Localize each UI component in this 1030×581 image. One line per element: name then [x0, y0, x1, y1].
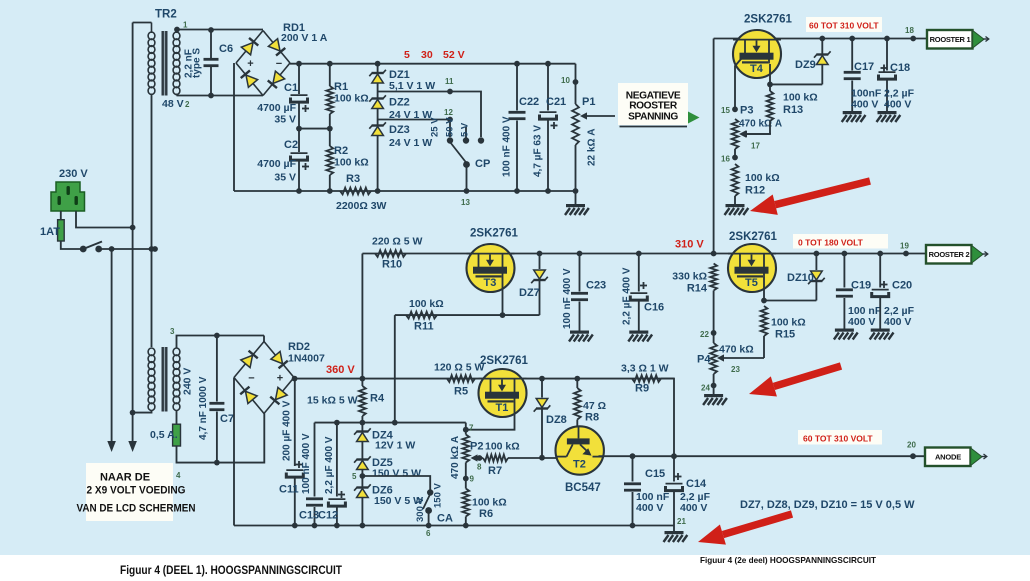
svg-text:1AT: 1AT [40, 226, 60, 238]
svg-text:2SK2761: 2SK2761 [729, 231, 778, 243]
svg-text:R9: R9 [635, 383, 649, 395]
svg-text:2: 2 [185, 100, 190, 109]
zener DZ1 [369, 64, 435, 92]
svg-text:400 V: 400 V [851, 99, 878, 111]
svg-text:ROOSTER 2: ROOSTER 2 [929, 250, 970, 259]
svg-text:C6: C6 [219, 43, 233, 55]
label negatieve rooster spanning [618, 83, 700, 127]
svg-text:C13: C13 [299, 510, 319, 522]
svg-text:R8: R8 [585, 412, 599, 424]
svg-text:7: 7 [469, 424, 474, 433]
svg-text:2,2 µF 400 V: 2,2 µF 400 V [324, 436, 335, 494]
pin 1 [183, 21, 188, 30]
label 60 tot 310 volt (rooster1) [806, 17, 882, 32]
svg-text:−: − [248, 373, 254, 385]
node 11 wire [378, 77, 485, 144]
wire rooster1 rail [714, 36, 927, 42]
potentiometer P3 [732, 105, 782, 158]
wire pin3 rail [177, 336, 265, 349]
svg-text:R15: R15 [775, 329, 795, 341]
svg-text:16: 16 [721, 155, 730, 164]
svg-text:470 kΩ A: 470 kΩ A [450, 436, 461, 479]
svg-text:12V 1 W: 12V 1 W [375, 440, 415, 452]
svg-text:24 V 1 W: 24 V 1 W [389, 137, 432, 149]
fuse 0,5A [150, 411, 181, 447]
svg-text:C16: C16 [644, 302, 664, 314]
transformer TR3 [148, 347, 180, 412]
resistor R2 [326, 129, 368, 191]
wire neutral vertical [128, 23, 137, 453]
zener DZ10 [787, 254, 825, 301]
resistor R3 [336, 173, 387, 212]
label RD1 [281, 22, 328, 44]
svg-text:220 Ω 5 W: 220 Ω 5 W [372, 236, 423, 248]
wire T3 gate [502, 277, 504, 315]
output ANODE [925, 448, 987, 467]
svg-text:8: 8 [477, 463, 482, 472]
svg-text:R1: R1 [334, 81, 348, 93]
zener DZ3 [369, 120, 432, 192]
svg-text:5: 5 [352, 472, 357, 481]
output ROOSTER 2 [926, 245, 988, 264]
svg-text:100 nF 400 V: 100 nF 400 V [502, 116, 513, 177]
capacitor C20 [872, 254, 915, 329]
node top rail DC [290, 61, 576, 67]
pin 19 [900, 242, 909, 251]
svg-text:R11: R11 [414, 321, 434, 333]
wire TR2 primary bottom to TR3 primary top [149, 96, 155, 348]
svg-text:50 V: 50 V [445, 117, 456, 137]
wire T4 gate [769, 64, 771, 91]
resistor R5 [434, 362, 485, 398]
wire plug-right to neutral line [76, 211, 136, 230]
svg-text:T2: T2 [573, 459, 586, 471]
svg-text:R13: R13 [783, 104, 803, 116]
ground C16 [628, 331, 652, 342]
wire anode rail [599, 453, 928, 459]
potentiometer P4 [697, 291, 754, 375]
svg-text:SPANNING: SPANNING [628, 112, 678, 123]
svg-text:48 V: 48 V [162, 98, 184, 110]
svg-text:2,2 µF 400 V: 2,2 µF 400 V [622, 267, 633, 325]
svg-text:2SK2761: 2SK2761 [744, 14, 793, 26]
capacitor C12 [318, 423, 345, 526]
svg-text:47 Ω: 47 Ω [583, 400, 606, 412]
transistor T5 [728, 231, 778, 292]
svg-text:R12: R12 [745, 185, 765, 197]
zener DZ9 [767, 39, 831, 88]
svg-text:470 kΩ A: 470 kΩ A [739, 119, 782, 130]
svg-text:R4: R4 [370, 393, 385, 405]
resistor R7 [483, 441, 557, 478]
wire RD1 minus vertical [233, 63, 235, 191]
svg-text:100 kΩ: 100 kΩ [409, 298, 444, 310]
capacitor C15 [624, 456, 670, 525]
svg-text:60 TOT 310 VOLT: 60 TOT 310 VOLT [803, 434, 873, 444]
capacitor C2 [257, 129, 309, 191]
svg-text:5 V: 5 V [460, 122, 471, 137]
svg-text:1: 1 [183, 21, 188, 30]
node 15 [721, 106, 738, 115]
svg-text:C23: C23 [586, 280, 606, 292]
potentiometer P1 [561, 64, 615, 204]
svg-text:+: + [277, 373, 283, 385]
svg-text:25 V: 25 V [430, 117, 441, 137]
svg-text:4,7 nF 1000 V: 4,7 nF 1000 V [198, 376, 209, 440]
zener DZ6 [354, 484, 423, 525]
svg-text:C17: C17 [854, 61, 874, 73]
red arrow 1 [750, 181, 870, 215]
svg-text:DZ8: DZ8 [546, 414, 567, 426]
svg-text:VAN DE LCD SCHERMEN: VAN DE LCD SCHERMEN [77, 503, 196, 515]
svg-text:2 X9 VOLT VOEDING: 2 X9 VOLT VOEDING [87, 485, 186, 497]
node 5 [352, 472, 365, 481]
svg-text:DZ10: DZ10 [787, 272, 814, 284]
svg-text:R2: R2 [334, 145, 348, 157]
label 310 V [675, 239, 704, 251]
svg-text:0 TOT 180 VOLT: 0 TOT 180 VOLT [798, 238, 864, 248]
svg-text:60 TOT 310 VOLT: 60 TOT 310 VOLT [809, 21, 879, 31]
svg-text:310 V: 310 V [675, 239, 704, 251]
label 5 30 52 V [404, 49, 465, 61]
red arrow 3 [698, 514, 792, 545]
resistor R14 [672, 264, 717, 295]
svg-text:CP: CP [475, 158, 490, 170]
svg-text:100 nF 400 V: 100 nF 400 V [301, 433, 312, 494]
svg-text:C19: C19 [851, 280, 871, 292]
svg-text:24: 24 [701, 384, 710, 393]
node 24 [701, 374, 716, 394]
svg-text:330 kΩ: 330 kΩ [672, 271, 707, 283]
svg-text:2SK2761: 2SK2761 [470, 228, 519, 240]
svg-text:470 kΩ: 470 kΩ [719, 344, 754, 356]
wire plug-left to fuse [60, 211, 62, 220]
svg-text:C15: C15 [645, 468, 665, 480]
svg-text:35 V: 35 V [274, 114, 296, 126]
capacitor C11 [279, 379, 303, 526]
resistor R1 [326, 64, 368, 129]
svg-text:4: 4 [176, 471, 181, 480]
svg-text:ROOSTER 1: ROOSTER 1 [930, 35, 971, 44]
svg-text:5: 5 [404, 49, 410, 61]
wire 360V rail [292, 376, 674, 382]
capacitor C14 [666, 456, 711, 531]
wire pin1 rail [174, 27, 263, 33]
pin 18 [905, 26, 914, 35]
wire TR2 primary top jog [133, 22, 152, 24]
svg-text:400 V: 400 V [884, 316, 911, 328]
svg-text:22 kΩ A: 22 kΩ A [587, 129, 598, 166]
capacitor C18 [879, 39, 915, 112]
svg-text:T1: T1 [496, 402, 509, 414]
resistor R8 [574, 379, 606, 439]
label 48 V [162, 98, 190, 110]
pin 3 [170, 327, 175, 336]
svg-text:100 nF 400 V: 100 nF 400 V [562, 268, 573, 329]
bridge rectifier RD1 [236, 31, 290, 96]
ground C17 [842, 111, 866, 122]
capacitor C17 [844, 39, 882, 112]
svg-text:15: 15 [721, 106, 730, 115]
label 230 V [59, 168, 88, 180]
svg-text:DZ7, DZ8, DZ9, DZ10 = 15 V 0,5: DZ7, DZ8, DZ9, DZ10 = 15 V 0,5 W [740, 499, 915, 511]
capacitor C1 [257, 64, 309, 129]
node 12 wire [378, 108, 454, 144]
label 360 V [326, 364, 355, 376]
ground P1 [565, 204, 589, 215]
svg-text:C2: C2 [284, 139, 298, 151]
ground C18 [877, 111, 901, 122]
svg-text:P4: P4 [697, 354, 711, 366]
svg-text:200 µF 400 V: 200 µF 400 V [282, 400, 293, 461]
wire TR3 primary bottom jog [133, 410, 152, 413]
switch CP [450, 142, 490, 207]
svg-text:Figuur 4 (DEEL 1). HOOGSPANNI: Figuur 4 (DEEL 1). HOOGSPANNINGSCIRCUIT [120, 565, 342, 577]
svg-text:100 kΩ: 100 kΩ [334, 157, 369, 169]
transistor T4 [733, 14, 793, 79]
svg-text:DZ3: DZ3 [389, 124, 410, 136]
svg-text:NAAR DE: NAAR DE [100, 472, 150, 484]
svg-text:100 kΩ: 100 kΩ [334, 93, 369, 105]
ground C23 [569, 331, 593, 342]
ground C20 [870, 329, 894, 340]
capacitor C7 [198, 333, 234, 463]
svg-text:BC547: BC547 [565, 482, 601, 494]
svg-text:C1: C1 [284, 82, 298, 94]
wire P4 wiper [717, 354, 764, 374]
svg-text:3: 3 [170, 327, 175, 336]
node 16 [721, 155, 738, 164]
wire pin2 rail [177, 95, 264, 97]
svg-text:4,7 µF 63 V: 4,7 µF 63 V [533, 125, 544, 177]
svg-text:T4: T4 [750, 63, 764, 75]
svg-text:+: + [247, 58, 253, 70]
wire T5 gate [761, 277, 816, 303]
svg-text:15 kΩ 5 W: 15 kΩ 5 W [307, 395, 358, 407]
svg-text:T5: T5 [745, 277, 758, 289]
zener DZ5 [354, 456, 421, 486]
svg-text:22: 22 [700, 330, 709, 339]
wire RD2 top stub [263, 336, 265, 342]
wire dz net [315, 420, 466, 426]
mains switch [80, 242, 102, 253]
transistor T3 [467, 228, 519, 293]
caption deel2 [700, 555, 877, 565]
svg-text:11: 11 [445, 77, 454, 86]
svg-text:2SK2761: 2SK2761 [480, 355, 529, 367]
zener DZ4 [354, 428, 415, 458]
capacitor C21 [533, 64, 567, 191]
svg-text:P3: P3 [740, 105, 753, 117]
red arrow 2 [749, 366, 841, 396]
svg-text:T3: T3 [484, 277, 497, 289]
ground C19 [834, 329, 858, 340]
resistor R9 [621, 363, 674, 457]
svg-text:DZ2: DZ2 [389, 97, 410, 109]
svg-text:3,3 Ω 1 W: 3,3 Ω 1 W [621, 363, 669, 375]
svg-text:150 V 5 W: 150 V 5 W [372, 468, 421, 480]
svg-text:400 V: 400 V [680, 502, 707, 514]
svg-text:5,1 V 1 W: 5,1 V 1 W [389, 80, 435, 92]
svg-text:19: 19 [900, 242, 909, 251]
wire section1 bottom rail [234, 188, 576, 194]
svg-text:12: 12 [444, 108, 453, 117]
svg-text:10: 10 [561, 76, 570, 85]
svg-text:21: 21 [677, 517, 686, 526]
svg-text:R14: R14 [687, 283, 708, 295]
wire switch to TR2 primary [99, 246, 158, 252]
svg-text:23: 23 [731, 365, 740, 374]
svg-text:30: 30 [421, 49, 433, 61]
capacitor C22 [502, 64, 540, 191]
svg-text:ROOSTER: ROOSTER [629, 101, 678, 112]
switch position labels [430, 117, 471, 137]
output ROOSTER 1 [927, 30, 989, 49]
svg-text:TR2: TR2 [155, 9, 177, 21]
svg-text:100 kΩ: 100 kΩ [485, 441, 520, 453]
svg-text:C21: C21 [546, 96, 566, 108]
svg-text:type S: type S [192, 48, 203, 78]
wire middle rail [296, 126, 333, 132]
svg-text:13: 13 [461, 198, 470, 207]
resistor R4 [307, 379, 385, 431]
svg-text:R7: R7 [488, 465, 502, 477]
svg-text:200 V 1 A: 200 V 1 A [281, 32, 328, 44]
capacitor C23 [562, 254, 606, 331]
svg-text:400 V: 400 V [884, 99, 911, 111]
transistor T1 [479, 355, 529, 417]
transistor T2 [556, 426, 604, 494]
svg-text:DZ7: DZ7 [519, 287, 540, 299]
svg-text:100 kΩ: 100 kΩ [472, 497, 507, 509]
svg-text:RD2: RD2 [288, 341, 310, 353]
svg-text:P1: P1 [582, 96, 595, 108]
svg-text:−: − [276, 58, 282, 70]
svg-text:100 kΩ: 100 kΩ [771, 317, 806, 329]
label 240 V [182, 368, 194, 395]
pin 20 [907, 441, 916, 450]
label 60 tot 310 volt (anode) [798, 430, 882, 445]
svg-text:R3: R3 [346, 173, 360, 185]
svg-text:CA: CA [437, 513, 453, 525]
svg-text:240 V: 240 V [182, 368, 194, 395]
svg-text:4700 µF: 4700 µF [257, 158, 296, 170]
caption deel1 [120, 565, 342, 577]
bridge rectifier RD2 [234, 342, 294, 414]
svg-text:Figuur 4 (2e deel) HOOGSPANNI: Figuur 4 (2e deel) HOOGSPANNINGSCIRCUIT [700, 555, 877, 565]
svg-text:C18: C18 [890, 62, 910, 74]
svg-text:C22: C22 [519, 96, 539, 108]
wire section3 bottom rail [234, 523, 674, 529]
capacitor C6 [184, 27, 234, 98]
capacitor C16 [622, 254, 665, 331]
svg-text:C12: C12 [318, 510, 338, 522]
ground R12 [725, 204, 749, 215]
svg-text:300 V: 300 V [415, 497, 426, 522]
connector 230V plug [51, 182, 85, 211]
zener DZ7 [519, 254, 548, 316]
wire R11 net [395, 312, 540, 422]
svg-text:1N4007: 1N4007 [288, 353, 325, 365]
wire RD2 minus vertical [233, 378, 235, 526]
wire rooster2 rail [362, 251, 927, 257]
label zener values [740, 499, 915, 511]
svg-text:C20: C20 [892, 280, 912, 292]
svg-text:2200Ω 3W: 2200Ω 3W [336, 200, 387, 212]
label 0 tot 180 volt [793, 234, 888, 249]
svg-text:100 kΩ: 100 kΩ [745, 172, 780, 184]
capacitor C19 [836, 254, 882, 329]
resistor R6 [462, 489, 506, 526]
svg-text:P2: P2 [470, 441, 483, 453]
switch contact 50V [463, 127, 469, 144]
switch CA [362, 476, 453, 538]
svg-text:17: 17 [751, 142, 760, 151]
svg-text:4700 µF: 4700 µF [257, 102, 296, 114]
svg-text:100 kΩ: 100 kΩ [783, 92, 818, 104]
svg-text:ANODE: ANODE [935, 453, 961, 462]
ground P4 [703, 394, 727, 405]
label naar de lcd [77, 463, 196, 521]
potentiometer P2 [450, 423, 483, 479]
transformer TR2 label [155, 9, 177, 21]
svg-text:R5: R5 [454, 386, 468, 398]
svg-text:C11: C11 [279, 484, 299, 496]
resistor R10 [372, 236, 423, 271]
capacitor C13 [299, 423, 323, 526]
wire pin4 rail [176, 414, 264, 481]
svg-text:R6: R6 [479, 508, 493, 520]
svg-text:DZ9: DZ9 [795, 59, 816, 71]
wire mains tap down-arrow 1 [107, 249, 116, 452]
node 22 [700, 330, 716, 339]
svg-text:400 V: 400 V [636, 502, 663, 514]
svg-text:0,5 A.: 0,5 A. [150, 429, 178, 441]
svg-text:52 V: 52 V [443, 49, 465, 61]
svg-text:18: 18 [905, 26, 914, 35]
zener DZ8 [534, 379, 567, 461]
wire T1 gate [466, 402, 515, 429]
svg-text:6: 6 [426, 529, 431, 538]
resistor R11 [406, 298, 444, 333]
svg-text:35 V: 35 V [274, 172, 296, 184]
node 8 [477, 455, 483, 471]
zener DZ2 [369, 92, 432, 122]
svg-text:C14: C14 [686, 478, 707, 490]
resistor R12 [732, 164, 780, 204]
svg-text:150 V: 150 V [433, 483, 444, 508]
transformer TR2 [148, 23, 180, 96]
resistor R15 [761, 306, 806, 358]
svg-text:20: 20 [907, 441, 916, 450]
label RD2 [288, 341, 325, 365]
resistor R13 [740, 91, 818, 138]
svg-text:120 Ω 5 W: 120 Ω 5 W [434, 362, 485, 374]
wire R10 feed vertical [361, 254, 363, 379]
node 9 [463, 463, 475, 489]
wire T4 source lead [735, 59, 741, 109]
svg-text:360 V: 360 V [326, 364, 355, 376]
svg-text:230 V: 230 V [59, 168, 88, 180]
svg-text:R10: R10 [382, 259, 402, 271]
wire fuse to switch [61, 241, 83, 249]
wire negatieve column [713, 39, 715, 254]
svg-text:9: 9 [470, 475, 475, 484]
fuse 1AT [40, 220, 64, 241]
svg-text:400 V: 400 V [848, 316, 875, 328]
ground C14 [664, 531, 688, 542]
svg-text:C7: C7 [220, 413, 234, 425]
